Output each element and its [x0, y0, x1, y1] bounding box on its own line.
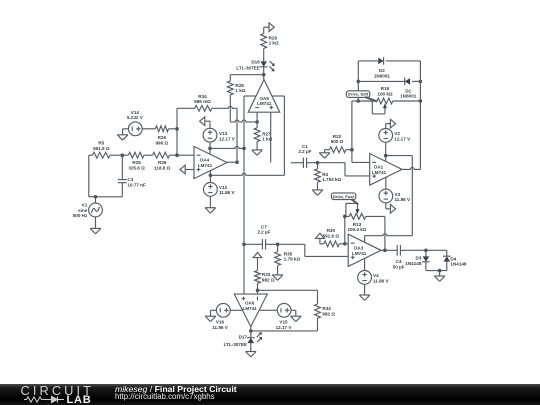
svg-text:R34: R34 — [322, 306, 331, 311]
voltage source V2 — [379, 129, 393, 143]
svg-text:1N4148: 1N4148 — [405, 261, 422, 266]
label R27 — [262, 131, 272, 141]
label D1 — [400, 89, 417, 99]
svg-text:982 Ω: 982 Ω — [322, 311, 335, 316]
label D3 — [405, 255, 422, 266]
OA5 plus input pin (dangling) — [270, 112, 272, 162]
junction dot D1 row left — [357, 80, 361, 84]
svg-text:325.6 Ω: 325.6 Ω — [128, 165, 145, 170]
wire R28 to OA5 minus node — [230, 95, 257, 122]
wire R13 left leg down — [344, 216, 346, 243]
resistor R22 — [330, 147, 346, 153]
diode D1 — [405, 78, 410, 86]
OA5 left power pin — [244, 96, 256, 244]
svg-text:11.86 V: 11.86 V — [373, 278, 390, 283]
label V12 — [219, 185, 236, 195]
label R34 — [194, 94, 211, 104]
svg-text:D3: D3 — [416, 255, 422, 260]
junction dot C7 left — [242, 243, 246, 247]
label V14 — [127, 110, 144, 120]
wire LED node to R28 — [230, 75, 263, 81]
op-amp OA5 — [248, 80, 280, 113]
voltage source V12 — [204, 183, 218, 197]
junction dot OA4 output — [235, 160, 239, 164]
wire OA6 output — [250, 327, 252, 338]
wire OA4 V+ node to column — [210, 146, 244, 148]
wire D2 top row — [358, 60, 420, 62]
flag above V2 — [386, 119, 396, 128]
label box Drive-Fuzz — [331, 193, 358, 205]
resistor R28 — [227, 81, 233, 95]
svg-text:Drive, Soft: Drive, Soft — [348, 93, 369, 97]
resistor R27 — [254, 122, 260, 150]
svg-text:2.2 µF: 2.2 µF — [298, 149, 311, 154]
label V2 — [394, 131, 411, 141]
wire OA4 output — [227, 161, 237, 163]
label V4 — [373, 273, 390, 283]
label V15 — [276, 320, 293, 330]
label box Drive-Soft — [346, 91, 377, 102]
junction dot supply column — [242, 147, 246, 151]
junction dot pot-right node — [419, 99, 423, 103]
wire OA6 minus to R34 loop — [258, 290, 318, 304]
label R36 — [154, 160, 171, 170]
ground left of V16 — [205, 310, 216, 321]
wire V14 to R26 — [142, 128, 155, 130]
svg-text:D17: D17 — [239, 335, 248, 340]
svg-text:1 kΩ: 1 kΩ — [269, 41, 279, 46]
junction dot OA6 minus node — [256, 289, 260, 293]
label C1 — [298, 144, 311, 154]
diode D3 — [422, 250, 430, 270]
label R13 — [347, 222, 366, 232]
wire node up to R16 row — [352, 101, 358, 150]
svg-text:LM741: LM741 — [372, 170, 387, 175]
svg-text:1 kΩ: 1 kΩ — [235, 88, 245, 93]
svg-text:986 mΩ: 986 mΩ — [194, 99, 211, 104]
resistor R5 — [89, 152, 110, 158]
junction dot OA5 minus — [255, 120, 259, 124]
junction dot D1 row right — [419, 80, 423, 84]
resistor R26 — [156, 126, 169, 132]
label R26 — [155, 135, 168, 145]
svg-text:R30: R30 — [327, 228, 336, 233]
wire OA1 output to diode loop — [402, 167, 420, 169]
OA1 V- pin — [385, 177, 387, 189]
svg-text:2.2 µF: 2.2 µF — [257, 230, 270, 235]
voltage source V16 — [216, 303, 230, 317]
wire D1 row — [358, 80, 420, 82]
wire R25-R36 — [144, 154, 153, 156]
wire diode loop right vertical — [419, 61, 421, 169]
junction dot R22/OA1 minus — [350, 148, 354, 152]
OA5 right power pin — [272, 96, 285, 175]
svg-text:100.4 kΩ: 100.4 kΩ — [347, 227, 366, 232]
junction dot OA1 V+ node — [384, 154, 388, 158]
resistor R34 — [177, 105, 212, 111]
voltage source V15 — [277, 303, 291, 317]
flag above V13 — [200, 117, 210, 128]
ground below D17 — [246, 352, 257, 357]
capacitor C7 — [244, 239, 278, 250]
svg-text:500 Hz: 500 Hz — [73, 213, 88, 218]
wire R29 to D16 — [263, 48, 265, 62]
svg-text:Drive, Fuzz: Drive, Fuzz — [333, 195, 354, 199]
op-amp OA3 — [348, 234, 381, 266]
capacitor C1 — [291, 158, 318, 169]
wire V2 to OA1 V+ pin — [385, 142, 387, 161]
wire D16 to node — [263, 67, 265, 75]
ground below V4 — [359, 295, 370, 300]
junction dot OA6 output — [249, 329, 253, 333]
junction dot OA4 V- node — [209, 174, 213, 178]
voltage source V4 — [358, 271, 372, 285]
wire supply column to OA6 plus — [243, 244, 245, 294]
node flag (net arrow) above R29 — [264, 23, 275, 34]
wire D17 to ground — [250, 343, 252, 351]
ground below V12 — [205, 208, 216, 213]
resistor R29 — [261, 34, 267, 49]
voltage source V13 — [203, 128, 217, 142]
wire V+ node right rail — [386, 156, 413, 236]
label R35 — [284, 251, 301, 261]
svg-text:OA4: OA4 — [200, 157, 210, 162]
LED D17 — [247, 332, 262, 343]
capacitor C4 — [397, 245, 426, 256]
wire R5 to C3 node — [110, 154, 129, 156]
svg-text:118.8 Ω: 118.8 Ω — [154, 165, 171, 170]
label R33 — [262, 272, 275, 282]
footer text — [115, 385, 237, 402]
label D16 — [236, 59, 260, 70]
wire R36 to OA4 minus — [170, 154, 195, 156]
wire D3/D4 bottom — [426, 270, 447, 272]
resistor R25 — [129, 152, 144, 158]
ground left of V14 — [117, 129, 128, 140]
svg-text:LM741: LM741 — [198, 163, 213, 168]
op-amp OA6 (points down) — [234, 294, 267, 327]
junction dot R35 top — [276, 243, 280, 247]
flag above R33 — [253, 252, 262, 270]
potentiometer R16 — [358, 98, 420, 114]
resistor R34 (982) — [251, 304, 321, 331]
junction dot pot-left node — [357, 99, 361, 103]
wire C7 to OA3 plus — [278, 244, 349, 256]
ground right of V15 — [291, 310, 302, 321]
svg-text:982 Ω: 982 Ω — [262, 277, 275, 282]
wire RC loop left/bottom — [89, 155, 123, 197]
label D17 — [224, 335, 248, 348]
svg-text:1 kΩ: 1 kΩ — [262, 137, 272, 142]
OA4 V- pin — [209, 171, 211, 183]
svg-text:10.77 nF: 10.77 nF — [127, 182, 146, 187]
capacitor C3 — [118, 155, 127, 197]
wire R13 right to OA3 output — [366, 216, 385, 250]
junction dot OA3 output — [383, 249, 387, 253]
label V1 — [73, 203, 88, 218]
wire diode loop left vertical — [357, 61, 359, 101]
flag left of R30 — [316, 233, 325, 244]
svg-text:996 Ω: 996 Ω — [155, 140, 168, 145]
wire V4 to ground — [364, 284, 366, 295]
label C4 — [393, 259, 405, 269]
junction dot OA4 V+ node — [208, 147, 212, 151]
ground left of R22 — [319, 150, 330, 159]
resistor R36 — [153, 152, 170, 158]
OA5 minus input pin — [256, 112, 258, 122]
label V16 — [212, 320, 229, 330]
ground below R27 — [252, 150, 263, 155]
junction dot R13 left — [343, 215, 347, 219]
label R29 — [269, 35, 279, 45]
svg-text:LM741: LM741 — [352, 251, 367, 256]
svg-text:1.79 kΩ: 1.79 kΩ — [284, 257, 301, 262]
svg-text:12.17 V: 12.17 V — [394, 136, 411, 141]
junction dot C1/R4 — [316, 161, 320, 165]
junction dot diode ground node — [438, 269, 442, 273]
svg-text:11.86 V: 11.86 V — [219, 190, 236, 195]
resistor R35 — [275, 244, 281, 275]
potentiometer R13 — [345, 203, 366, 219]
diode D4 — [443, 256, 451, 270]
voltage source V14 — [128, 122, 142, 136]
svg-text:1N6001: 1N6001 — [400, 94, 417, 99]
label R28 — [235, 83, 245, 93]
label D2 — [374, 68, 391, 78]
svg-text:D16: D16 — [251, 59, 260, 64]
label R5 — [93, 141, 110, 151]
wire D4 branch top — [426, 250, 447, 256]
svg-text:LTL-307EE: LTL-307EE — [236, 65, 259, 70]
op-amp OA1 — [370, 154, 402, 186]
OA6 right power pin / V15 — [259, 309, 277, 311]
wire V12 to ground — [209, 196, 211, 207]
ground below diodes — [434, 276, 445, 281]
voltage source V1 (sine) — [89, 197, 103, 229]
junction dot C3 top — [121, 153, 125, 157]
svg-text:50 µF: 50 µF — [393, 264, 405, 269]
wire R34 left leg — [176, 108, 178, 155]
wire R26 to node — [169, 128, 178, 130]
svg-text:591.6 Ω: 591.6 Ω — [323, 233, 340, 238]
label V13 — [219, 131, 236, 141]
label R30 — [323, 228, 340, 238]
svg-text:100 kΩ: 100 kΩ — [377, 91, 392, 96]
junction dot V1 top — [94, 195, 98, 199]
svg-text:11.86 V: 11.86 V — [395, 197, 412, 202]
svg-text:11.86 V: 11.86 V — [212, 325, 229, 330]
label R4 — [322, 172, 341, 182]
wire R34 to OA4 output — [212, 106, 237, 162]
junction dot R26/feedback column — [175, 127, 179, 131]
flag below V3 — [386, 203, 396, 213]
diode D2 — [378, 57, 383, 65]
wire node to OA1 minus — [352, 150, 370, 163]
label R16 — [377, 86, 392, 96]
ground below R4 — [312, 190, 323, 195]
resistor R30 — [324, 241, 339, 247]
label C7 — [257, 224, 270, 234]
svg-text:1.793 kΩ: 1.793 kΩ — [322, 177, 341, 182]
CircuitLab logo — [21, 383, 95, 398]
wire R22 to node — [346, 149, 352, 151]
LED D16 — [260, 61, 275, 71]
svg-text:LM741: LM741 — [257, 101, 272, 106]
svg-text:5.232 V: 5.232 V — [127, 115, 144, 120]
resistor R33 — [255, 271, 261, 295]
ground below R35 — [272, 275, 283, 280]
junction dot D3 top — [424, 249, 428, 253]
junction dot OA3 minus node — [343, 242, 347, 246]
OA3 V+ pin — [365, 234, 413, 243]
label R22 — [331, 134, 344, 144]
svg-text:12.17 V: 12.17 V — [276, 325, 293, 330]
flag at OA4 plus input — [180, 165, 194, 174]
label C3 — [127, 177, 146, 187]
svg-text:551.8 Ω: 551.8 Ω — [93, 146, 110, 151]
OA6 left power pin / V16 — [230, 309, 242, 311]
wire to OA1 plus input — [318, 163, 370, 176]
label V3 — [395, 192, 412, 202]
op-amp OA4 — [194, 146, 227, 178]
svg-text:LM741: LM741 — [243, 306, 258, 311]
svg-text:1N4148: 1N4148 — [450, 262, 467, 267]
label D4 — [450, 257, 467, 267]
svg-text:LTL-307EE: LTL-307EE — [224, 342, 247, 347]
label R25 — [128, 160, 145, 170]
wire OA4 V- to OA5 right pin — [210, 173, 284, 175]
svg-text:OA1: OA1 — [374, 164, 384, 169]
OA3 V- pin / V4 — [364, 258, 366, 270]
ground below V1 — [90, 228, 101, 233]
label R34 (982) — [322, 306, 335, 316]
svg-text:500 Ω: 500 Ω — [331, 139, 344, 144]
wire R30 to OA3 minus — [339, 243, 348, 245]
footer bar — [0, 384, 540, 405]
wire to diode ground — [439, 271, 441, 276]
voltage source V3 — [379, 189, 393, 203]
wire OA3 output to C4 — [381, 249, 397, 251]
resistor R4 — [315, 163, 321, 190]
svg-text:1N6001: 1N6001 — [374, 73, 391, 78]
svg-text:12.17 V: 12.17 V — [219, 136, 236, 141]
OA4 V+ pin / V13 — [209, 142, 211, 154]
svg-text:OA3: OA3 — [354, 246, 364, 251]
junction dot OA4 minus node — [175, 153, 179, 157]
junction dot LED/OA5 — [262, 73, 266, 77]
wire node to OA5 output — [263, 75, 265, 80]
